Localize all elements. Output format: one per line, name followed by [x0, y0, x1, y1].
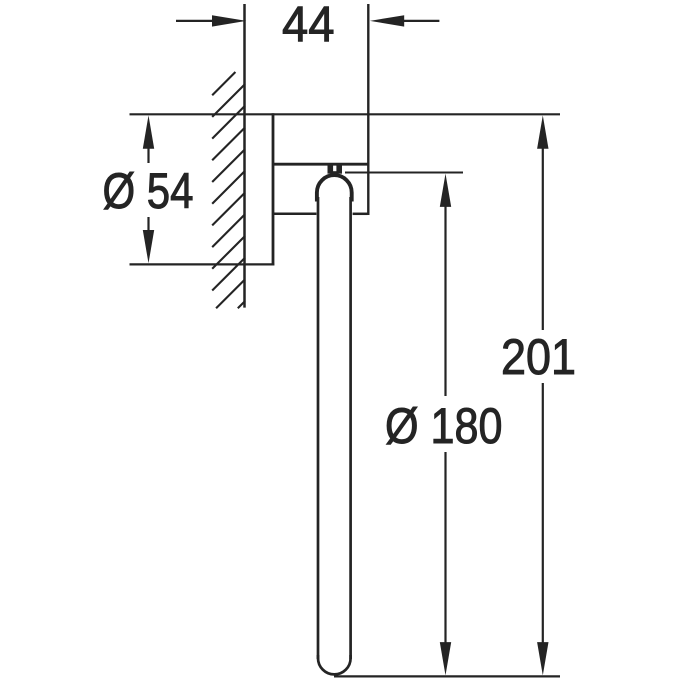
- bottom extension line: ring bottom tangent / 201 bottom: [334, 675, 560, 677]
- dim 44: left dimension line with arrow: [176, 20, 216, 22]
- dim 44: right dimension line with arrow: [400, 20, 439, 22]
- towel ring bottom cap: [318, 655, 351, 674]
- arm front edge (also right extension of dim 44): [367, 4, 369, 215]
- dim Ø54: upper arrow (pointing up): [147, 140, 149, 163]
- dim 201: vertical dimension line with arrows, gap for label: [537, 115, 548, 148]
- dim Ø180: vertical dimension line with arrows, gap for label: [440, 174, 451, 207]
- wall hatching: [212, 72, 245, 308]
- wall surface line (also left extension of dim 44): [243, 4, 246, 308]
- holder arm bottom line (interrupted by ring): [273, 213, 316, 216]
- dim Ø54: lower arrow (pointing down): [147, 217, 149, 240]
- svg-text:Ø 180: Ø 180: [385, 398, 503, 454]
- holder arm top line: [273, 163, 368, 166]
- extension line: plate bottom / Ø54 bottom: [130, 263, 275, 265]
- extension line: plate top / Ø54 top / 201 top: [130, 113, 561, 115]
- mounting pin between arm and ring: [328, 165, 343, 174]
- mounting plate (rosette, side view) right edge: [272, 113, 275, 265]
- svg-text:201: 201: [501, 329, 576, 385]
- towel ring tube sides: [317, 197, 320, 659]
- towel ring top cap (dome): [317, 175, 352, 201]
- svg-text:44: 44: [282, 0, 335, 53]
- svg-text:Ø 54: Ø 54: [103, 163, 194, 219]
- dim Ø180: top extension line (ring top tangent): [345, 171, 463, 173]
